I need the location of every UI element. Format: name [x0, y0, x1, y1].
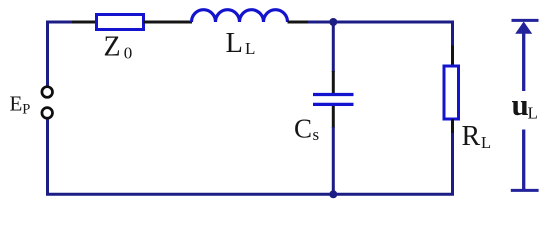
wire: into RL top (black): [451, 46, 454, 67]
capacitor Cs top plate: [313, 93, 354, 96]
svg-text:L: L: [528, 104, 538, 123]
label RL: [462, 121, 492, 152]
svg-text:P: P: [22, 101, 30, 117]
label LL: [226, 28, 256, 59]
wire: segment into Z0 (black): [72, 21, 97, 24]
svg-text:L: L: [245, 39, 255, 58]
source EP terminal (bottom circle): [42, 108, 53, 119]
svg-text:R: R: [462, 121, 481, 152]
label Z0: [104, 32, 133, 63]
voltage arrow uL: bottom bar: [511, 189, 539, 192]
wire: left branch bottom (below EP to bottom wire) navy: [46, 120, 49, 195]
wire: capacitor down to bottom node (black then navy): [332, 106, 335, 128]
node: bottom junction dot: [329, 190, 337, 198]
svg-text:Z: Z: [104, 32, 121, 63]
wire: bottom rail navy: [46, 193, 454, 196]
capacitor Cs bottom plate: [313, 103, 354, 106]
wire: top wire node to right corner, down to RL (navy): [308, 22, 453, 47]
wire: inductor to node (black): [288, 21, 310, 24]
wire: Z0 to inductor (black): [144, 21, 193, 24]
label Cs: [294, 113, 319, 144]
svg-text:u: u: [512, 87, 529, 122]
resistor Z0 (series impedance box): [97, 15, 144, 30]
wire: node down to capacitor (navy then black): [332, 22, 335, 72]
svg-text:C: C: [294, 113, 312, 143]
resistor RL (vertical box): [444, 66, 459, 119]
svg-text:E: E: [10, 92, 23, 116]
svg-text:s: s: [313, 125, 320, 144]
wire: left branch top (corner to Z0) navy: [48, 22, 74, 86]
voltage arrow uL: shaft upper segment: [522, 32, 525, 91]
node: top junction dot: [329, 18, 337, 26]
voltage arrow uL: top bar: [512, 19, 539, 22]
voltage arrow uL: shaft lower segment: [522, 130, 525, 190]
svg-text:0: 0: [124, 44, 133, 63]
label uL: [512, 87, 538, 123]
inductor LL (4-hump coil): [192, 10, 288, 22]
label EP: [10, 92, 31, 118]
svg-text:L: L: [226, 28, 243, 59]
wire: RL bottom (black then navy): [451, 119, 454, 134]
voltage arrow uL: arrowhead (up): [515, 22, 532, 34]
source EP terminal (top circle): [42, 87, 53, 98]
svg-text:L: L: [481, 133, 491, 152]
